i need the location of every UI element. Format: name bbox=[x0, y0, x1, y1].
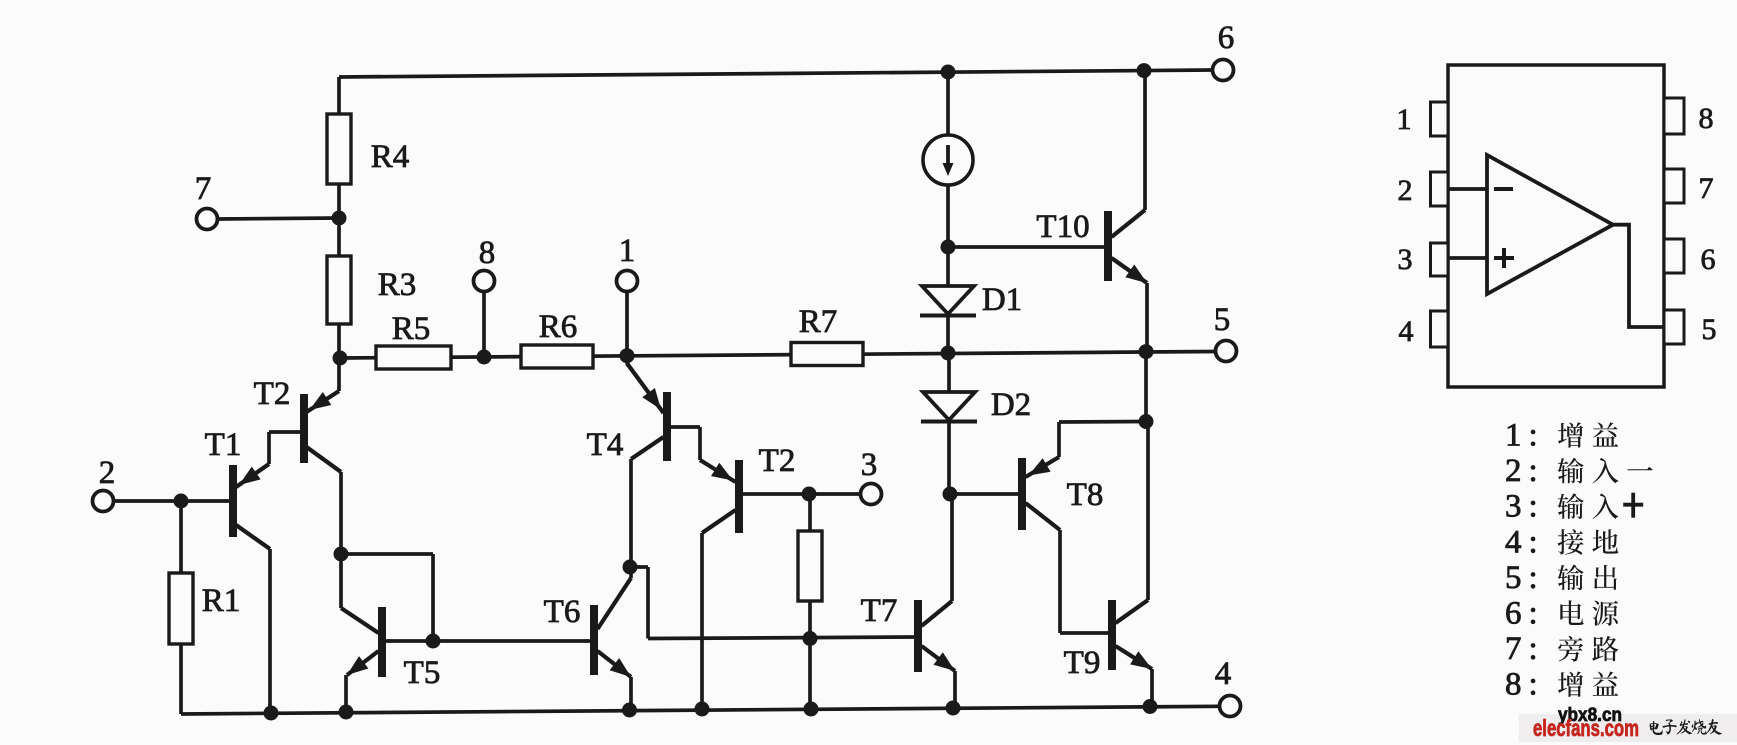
wire T9 emitter drop bbox=[1150, 669, 1154, 706]
arrow T4 emitter bbox=[642, 388, 661, 410]
wire T2 second collector diagonal bbox=[702, 510, 736, 533]
resistor R4 bbox=[327, 114, 351, 184]
arrow T10 emitter bbox=[1125, 265, 1147, 284]
resistor R5 bbox=[376, 346, 451, 369]
svg-text:R5: R5 bbox=[392, 311, 431, 347]
node top rail T10 bbox=[1137, 63, 1152, 78]
wire terminal7 to node bbox=[218, 218, 340, 219]
node T7 emitter at rail bbox=[946, 701, 961, 716]
node T8 base T7 collector bbox=[943, 487, 958, 502]
terminal 5 bbox=[1216, 341, 1237, 362]
svg-text:7:: 7: bbox=[1505, 631, 1545, 667]
wire collector node step right bbox=[630, 565, 648, 569]
wire T5 emitter drop bbox=[344, 675, 348, 712]
resistor R1 bbox=[169, 573, 193, 644]
svg-text:D1: D1 bbox=[982, 282, 1022, 318]
svg-text:T2: T2 bbox=[759, 443, 796, 479]
wire T6 emitter diagonal bbox=[598, 651, 632, 677]
node mid rail output bbox=[1139, 344, 1154, 359]
pin 1 left bbox=[1431, 102, 1449, 136]
svg-text:T9: T9 bbox=[1064, 645, 1101, 681]
terminal 2 bbox=[93, 491, 114, 512]
wire T2 emitter riser bbox=[337, 358, 341, 391]
wire pin3 to noninverting input bbox=[1448, 256, 1487, 260]
wire T10 collector riser bbox=[1143, 71, 1147, 210]
svg-text:T8: T8 bbox=[1067, 477, 1104, 513]
wire T4 base to T2 emitter diagonal bbox=[700, 460, 736, 482]
wire T7 collector riser bbox=[950, 495, 954, 602]
wire T9 base bbox=[1060, 631, 1109, 635]
wire mid rail to D2 bbox=[947, 353, 951, 392]
resistor R7 bbox=[791, 343, 863, 366]
transistor T2 first bbox=[300, 394, 308, 463]
wire T4 base lead bbox=[671, 425, 701, 429]
wire op-amp output to pin5 bbox=[1613, 225, 1664, 327]
wire T10 collector diagonal bbox=[1112, 210, 1146, 237]
svg-text:6:: 6: bbox=[1505, 596, 1545, 632]
wire top supply rail bbox=[339, 70, 1213, 77]
wire top rail to R4 bbox=[337, 77, 341, 114]
node terminal3 R2 bbox=[802, 487, 817, 502]
svg-text:8:: 8: bbox=[1505, 667, 1545, 703]
svg-text:8: 8 bbox=[1699, 102, 1714, 135]
node pin1 drop bbox=[620, 348, 635, 363]
arrow T7 emitter bbox=[934, 652, 956, 671]
svg-text:2: 2 bbox=[1398, 174, 1413, 207]
wire top rail to current source bbox=[946, 72, 950, 136]
svg-text:3: 3 bbox=[1398, 243, 1413, 276]
svg-text:T6: T6 bbox=[544, 594, 581, 630]
wire R2 to base line bbox=[808, 601, 812, 639]
node T4 T6 collectors bbox=[623, 560, 638, 575]
pin 3 left bbox=[1431, 243, 1449, 276]
wire step drop bbox=[646, 567, 650, 639]
svg-text:R3: R3 bbox=[378, 267, 417, 303]
pin 7 right bbox=[1664, 169, 1684, 203]
svg-text:3: 3 bbox=[861, 447, 878, 483]
node mid rail left bbox=[333, 351, 348, 366]
svg-text:R1: R1 bbox=[202, 583, 241, 619]
wire base line to T7 bbox=[648, 637, 915, 639]
svg-text:6: 6 bbox=[1701, 243, 1716, 276]
wire T7 emitter drop bbox=[953, 671, 957, 708]
arrow T2 second emitter bbox=[711, 463, 733, 481]
arrow T1 emitter bbox=[239, 467, 261, 485]
wire T1 emitter riser bbox=[267, 432, 271, 464]
svg-text:T10: T10 bbox=[1036, 209, 1089, 245]
wire T9 collector riser bbox=[1146, 422, 1150, 601]
svg-text:7: 7 bbox=[1699, 172, 1714, 205]
node T1 collector at rail bbox=[264, 706, 279, 721]
node T6 emitter at rail bbox=[622, 703, 637, 718]
wire D2 to T8 base node bbox=[947, 422, 951, 495]
transistor T4 bbox=[663, 392, 671, 461]
svg-text:4: 4 bbox=[1399, 315, 1414, 348]
wire T9 collector diagonal bbox=[1116, 600, 1149, 623]
terminal 7 bbox=[197, 209, 218, 230]
wire current source to T10 base node bbox=[946, 185, 950, 247]
wire T8 emitter to output column bbox=[1059, 420, 1146, 424]
watermark chinese bbox=[1650, 721, 1663, 735]
wire T5 T6 base line bbox=[386, 639, 591, 643]
wire T5 emitter diagonal bbox=[347, 651, 379, 675]
diode D1 bbox=[922, 286, 974, 314]
pin 6 right bbox=[1664, 239, 1684, 273]
wire T8 emitter diagonal bbox=[1026, 457, 1060, 477]
svg-text:T2: T2 bbox=[254, 376, 291, 412]
wire T2 base from T1 bbox=[269, 430, 301, 434]
pin 2 left bbox=[1431, 172, 1449, 206]
node T10 base D1 bbox=[941, 240, 956, 255]
node T2 collector T5 bbox=[334, 547, 349, 562]
node top rail current source bbox=[941, 65, 956, 80]
wire T2 collector diagonal bbox=[307, 447, 342, 472]
terminal 3 bbox=[861, 484, 882, 505]
svg-text:1: 1 bbox=[1397, 103, 1412, 136]
transistor T6 bbox=[590, 605, 598, 675]
wire node to T5 collector bbox=[339, 554, 343, 608]
pin 5 right bbox=[1664, 310, 1684, 344]
node T5 emitter at rail bbox=[339, 705, 354, 720]
svg-text:7: 7 bbox=[195, 171, 212, 207]
wire node to R3 bbox=[337, 218, 341, 256]
resistor R2 bbox=[798, 531, 822, 601]
IC package body bbox=[1448, 65, 1664, 387]
terminal 4 bbox=[1220, 696, 1241, 717]
svg-text:T5: T5 bbox=[404, 655, 441, 691]
wire terminal8 drop bbox=[482, 292, 486, 358]
node T2 second collector at rail bbox=[695, 702, 710, 717]
transistor T10 bbox=[1104, 211, 1112, 281]
wire output column bbox=[1144, 352, 1148, 422]
svg-text:1:: 1: bbox=[1505, 418, 1545, 454]
node T1 base R1 bbox=[174, 494, 189, 509]
svg-text:5:: 5: bbox=[1505, 560, 1545, 596]
wire node to D1 bbox=[946, 247, 950, 286]
wire T4 collector drop bbox=[629, 459, 633, 567]
wire R1 to bottom rail bbox=[179, 644, 183, 714]
terminal 1 bbox=[617, 271, 638, 292]
svg-text:1: 1 bbox=[619, 233, 636, 269]
terminal 6 bbox=[1213, 60, 1234, 81]
current source arrow bbox=[946, 145, 950, 166]
node pin7 junction bbox=[332, 211, 347, 226]
wire T6 collector riser bbox=[629, 567, 633, 578]
wire T5 diode link drop bbox=[431, 554, 435, 641]
wire T2 collector drop bbox=[339, 472, 343, 554]
wire terminal2 to T1 base bbox=[114, 499, 230, 503]
transistor T9 bbox=[1108, 600, 1116, 670]
wire T7 emitter diagonal bbox=[922, 646, 956, 671]
wire T9 emitter diagonal bbox=[1116, 646, 1153, 669]
arrow T5 emitter bbox=[347, 656, 368, 675]
svg-text:T1: T1 bbox=[205, 427, 242, 463]
wire T10 base bbox=[948, 245, 1105, 249]
node mid rail D2 bbox=[941, 346, 956, 361]
node R2 at rail bbox=[804, 702, 819, 717]
node T5 base bbox=[426, 634, 441, 649]
transistor T8 bbox=[1018, 458, 1026, 530]
transistor T2 second bbox=[735, 460, 743, 533]
svg-text:4: 4 bbox=[1215, 656, 1232, 692]
op-amp U1 triangle bbox=[1487, 155, 1613, 294]
svg-text:5: 5 bbox=[1214, 302, 1231, 338]
svg-text:R6: R6 bbox=[539, 309, 578, 345]
current source CS1 bbox=[923, 135, 973, 185]
node output column T8 T9 bbox=[1139, 414, 1154, 429]
transistor T7 bbox=[914, 600, 922, 672]
wire T8 collector diagonal bbox=[1026, 503, 1061, 530]
svg-text:R4: R4 bbox=[371, 139, 410, 175]
arrow T2 emitter bbox=[310, 392, 332, 410]
wire T6 emitter drop bbox=[629, 677, 633, 710]
svg-text:2:: 2: bbox=[1505, 453, 1545, 489]
wire T5 collector diagonal bbox=[341, 608, 379, 633]
svg-text:T4: T4 bbox=[587, 427, 624, 463]
wire R2 node to bottom rail bbox=[808, 639, 812, 710]
wire T10 emitter drop bbox=[1145, 283, 1149, 352]
wire terminal1 drop bbox=[625, 292, 629, 357]
pin 8 right bbox=[1664, 98, 1684, 134]
wire T1 collector diagonal bbox=[236, 525, 270, 549]
arrow T9 emitter bbox=[1130, 651, 1152, 669]
svg-text:8: 8 bbox=[479, 235, 496, 271]
wire T8 base bbox=[950, 492, 1019, 496]
wire T1 collector drop bbox=[268, 549, 272, 713]
wire R4 to node pin7 bbox=[337, 184, 341, 218]
wire T4 base drop bbox=[698, 427, 702, 460]
wire bottom ground rail bbox=[181, 706, 1220, 714]
op-amp plus input sign bbox=[1494, 256, 1514, 260]
wire T4 emitter from pin1 node bbox=[628, 356, 664, 413]
node T9 emitter at rail bbox=[1143, 699, 1158, 714]
wire T2 second base to terminal 3 bbox=[743, 492, 861, 496]
wire T1 emitter diagonal bbox=[236, 464, 269, 487]
svg-text:T7: T7 bbox=[861, 593, 898, 629]
wire R3 to mid rail bbox=[337, 324, 341, 359]
wire T2 emitter diagonal bbox=[307, 391, 340, 412]
arrow T8 emitter bbox=[1029, 458, 1051, 475]
wire T10 emitter diagonal bbox=[1112, 258, 1148, 283]
wire mid rail bbox=[340, 352, 1215, 359]
svg-text:2: 2 bbox=[99, 455, 116, 491]
wire node3 to R2 bbox=[808, 494, 812, 531]
wire T7 collector diagonal bbox=[922, 601, 953, 626]
svg-text:D2: D2 bbox=[991, 387, 1031, 423]
svg-text:3:: 3: bbox=[1505, 489, 1545, 525]
wire T4 collector diagonal bbox=[631, 437, 664, 459]
op-amp minus input sign bbox=[1494, 187, 1513, 191]
wire T6 collector diagonal bbox=[598, 578, 632, 629]
terminal 8 bbox=[474, 271, 495, 292]
wire D1 to mid rail bbox=[946, 316, 950, 354]
transistor T1 bbox=[229, 465, 237, 537]
transistor T5 bbox=[378, 607, 386, 677]
resistor R6 bbox=[521, 345, 593, 368]
svg-text:4:: 4: bbox=[1505, 524, 1545, 560]
resistor R3 bbox=[327, 256, 351, 324]
wire T2 second collector drop bbox=[700, 533, 704, 709]
watermark band bbox=[1519, 714, 1737, 742]
arrow T6 emitter bbox=[610, 658, 631, 677]
wire pin2 to inverting input bbox=[1448, 187, 1487, 191]
svg-text:elecfans.com: elecfans.com bbox=[1533, 715, 1639, 741]
wire T8 collector drop bbox=[1058, 530, 1062, 633]
diode D2 bbox=[923, 392, 975, 420]
wire T5 diode link horizontal bbox=[341, 552, 433, 556]
svg-text:6: 6 bbox=[1218, 20, 1235, 56]
wire T8 emitter riser bbox=[1057, 422, 1061, 457]
node R2 base line bbox=[803, 631, 818, 646]
svg-text:5: 5 bbox=[1702, 313, 1717, 346]
pin 4 left bbox=[1431, 311, 1449, 347]
wire node to R1 bbox=[179, 501, 183, 573]
node pin8 drop bbox=[477, 350, 492, 365]
svg-text:R7: R7 bbox=[799, 304, 838, 340]
